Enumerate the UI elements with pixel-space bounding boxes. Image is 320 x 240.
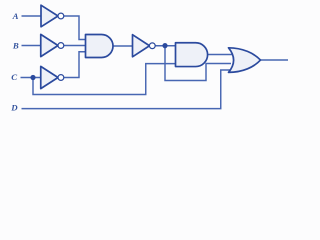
wire C branch to AND2 input 2 (33, 64, 177, 95)
inverter 4 (133, 35, 150, 57)
wire inv4 output to AND2 input 1 (155, 45, 177, 47)
svg-text:C: C (11, 72, 17, 82)
wire inv3 output to AND1 input 3 (64, 52, 87, 78)
svg-text:D: D (10, 103, 18, 113)
wire inv2 output to AND1 input 2 (64, 45, 87, 47)
wire OR output (261, 59, 289, 61)
AND gate 1 (86, 35, 114, 58)
wire AND2 output to OR input 1 (208, 54, 234, 56)
svg-text:A: A (12, 11, 19, 21)
svg-text:B: B (12, 41, 19, 51)
node after inv4 (162, 43, 167, 48)
AND gate 2 (176, 43, 208, 67)
wire inv1 output to AND1 input 1 (64, 16, 88, 40)
wire input C (21, 77, 41, 79)
inverter 3 (input C) (41, 66, 58, 88)
OR gate (229, 48, 261, 73)
wire input B (22, 45, 41, 47)
wire input D to OR input 3 (22, 70, 232, 109)
wire input A (22, 15, 42, 17)
inverter 1 (input A) (41, 5, 58, 27)
wire node branch to OR input 2 (165, 46, 231, 81)
wire AND1 output to inv4 (113, 45, 133, 47)
node C junction (30, 75, 35, 80)
inverter 2 (input B) (41, 34, 58, 56)
